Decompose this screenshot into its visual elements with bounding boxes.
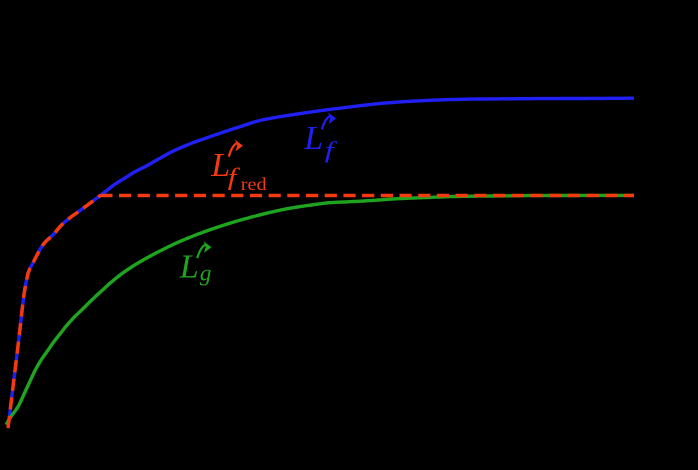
svg-text:L: L — [303, 120, 323, 157]
curve L_f_red (red dashed, horizontal asymptote part) — [100, 194, 634, 198]
label L_f (blue) — [303, 114, 337, 163]
label L_g (green) — [179, 243, 212, 286]
svg-text:g: g — [200, 261, 212, 286]
label L_f_red (red) — [210, 141, 267, 194]
svg-text:L: L — [179, 249, 199, 286]
curve L_f_red (red dashed, curved part following blue) — [8, 196, 100, 429]
curved arrow accent of L_f (blue) — [322, 116, 330, 129]
curved arrow accent of L_g (green) — [197, 245, 205, 258]
svg-text:red: red — [241, 175, 267, 195]
curve L_f (blue solid) — [8, 98, 634, 428]
curved arrow accent of L_f_red (red) — [229, 143, 237, 156]
curve L_g (green solid) — [6, 195, 634, 424]
